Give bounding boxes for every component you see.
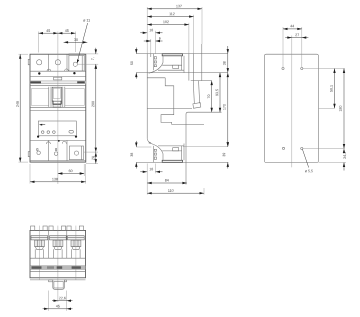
- dim 84 bottom: [147, 179, 187, 184]
- front small step line: [150, 54, 152, 57]
- line under strip: [30, 270, 86, 272]
- extension line left hole: [38, 32, 40, 53]
- handle escutcheon area: [30, 87, 86, 108]
- bottom pole divider lines: [48, 140, 67, 160]
- dim 38 right top: [223, 46, 229, 73]
- dim 60 bottom: [58, 164, 84, 176]
- front face line: [146, 54, 148, 139]
- centre line: [57, 32, 59, 185]
- dim 50.1: [330, 69, 336, 109]
- rear stud: [193, 81, 201, 109]
- ext lines to top dims: [147, 7, 202, 54]
- hole top left: [282, 67, 284, 69]
- lug bottom ext line: [136, 72, 228, 74]
- pole 1 terminal: [31, 226, 48, 249]
- mid horizontal line: [147, 108, 192, 110]
- dim 50 left top: [130, 48, 137, 79]
- case rear line: [188, 54, 190, 81]
- bottom clamp front column: [154, 146, 157, 163]
- small arc bumps on top zone: [47, 69, 68, 71]
- DIN clip: [49, 280, 67, 289]
- label strip: [30, 266, 86, 270]
- toggle handle: [52, 87, 62, 107]
- clamp front column: [154, 54, 157, 71]
- rearmost line: [201, 44, 203, 81]
- line under dots: [30, 76, 86, 78]
- centre line: [291, 36, 293, 168]
- front view body outline: [30, 54, 86, 162]
- rear panel line: [193, 54, 195, 81]
- ext lines bottom dims: [49, 291, 67, 311]
- dim 34.1: [343, 149, 346, 171]
- small centre rectangle (test button): [54, 77, 62, 80]
- bottom holes: [37, 151, 40, 154]
- terminal hole middle: [55, 60, 60, 65]
- bottom lug clamp: [149, 143, 184, 162]
- left side bracket top: [28, 59, 30, 64]
- pole lower guide lines: [35, 249, 80, 258]
- bottom terminal zone top line: [30, 139, 86, 141]
- escutcheon section profile: [161, 78, 204, 125]
- dim 38 left bottom: [130, 141, 151, 169]
- bottom ext lines: [147, 164, 155, 195]
- extension line right hole: [75, 32, 77, 53]
- front view top terminal zone line: [30, 70, 86, 72]
- body outline: [30, 230, 86, 280]
- dim 112: [147, 13, 193, 18]
- dim 45 left: [39, 29, 58, 34]
- accessory circles: [41, 131, 44, 134]
- bottom face ext line: [136, 161, 228, 163]
- dim 18 top: [140, 29, 162, 34]
- ext lines bottom right box: [84, 152, 98, 164]
- front view pole divider lines top zone: [48, 54, 67, 71]
- dim 102: [147, 21, 189, 26]
- leader o11: [77, 19, 90, 63]
- phase barrier dots: [38, 72, 40, 74]
- ext lines top right box: [78, 54, 98, 64]
- dim 200 vertical right: [92, 64, 97, 152]
- dim 138 bottom: [30, 164, 86, 184]
- ext lines holes up: [283, 27, 302, 67]
- accessory cover rectangle: [38, 121, 76, 136]
- hole line right bottom: [303, 148, 345, 150]
- small arrow symbol: [39, 124, 45, 126]
- cutout outline: [264, 54, 318, 162]
- dim 45 right: [58, 29, 76, 34]
- small dot on line: [58, 140, 60, 142]
- hole bottom left: [282, 147, 284, 149]
- right ext line y146.7: [183, 146, 228, 148]
- cover section line: [147, 77, 165, 79]
- pole divider lines: [49, 230, 67, 258]
- hole bottom right: [301, 147, 303, 149]
- dim 45 bottom: [43, 305, 73, 310]
- top lug clamp: [149, 54, 184, 73]
- dim 39 right bottom: [223, 141, 229, 169]
- dim 70 right: [207, 81, 212, 113]
- hole line right top: [303, 68, 345, 70]
- body horizontal line: [30, 257, 86, 259]
- dim 22.6: [52, 297, 73, 302]
- dim 44: [283, 25, 302, 30]
- top right mounting box with hole: [69, 54, 84, 71]
- dim 110 bottom: [147, 189, 204, 194]
- dim 27: [285, 34, 308, 39]
- rating label strip: [30, 81, 86, 84]
- pole centre lines: [39, 226, 76, 302]
- accessory oval: [69, 130, 74, 133]
- stud shelf line: [191, 80, 212, 82]
- small tick marks: [37, 149, 38, 151]
- left side bracket bottom: [28, 152, 30, 157]
- dim 137: [147, 5, 202, 10]
- pole 2 terminal: [49, 226, 66, 249]
- line under label strip: [30, 84, 86, 86]
- terminal hole left: [37, 60, 42, 65]
- bottom arc bumps: [46, 141, 66, 144]
- dim 7: [91, 48, 97, 69]
- pole 3 terminal: [67, 226, 84, 249]
- ext bottom edge right: [319, 162, 347, 164]
- leader o5.5: [303, 150, 313, 173]
- mid tick line: [319, 107, 335, 109]
- dim 6 top: [144, 37, 163, 42]
- bottom right mounting box: [69, 146, 83, 160]
- ext line 110 right: [203, 188, 205, 195]
- dim 30: [64, 38, 88, 43]
- line below escutcheon: [30, 109, 86, 111]
- dim 248 left: [16, 54, 28, 162]
- dim 18 bottom: [140, 168, 162, 173]
- dim 93.5: [216, 73, 222, 113]
- stud base line: [186, 112, 222, 184]
- accessory corner dots: [37, 136, 39, 138]
- dim 180: [339, 69, 345, 149]
- dim 28: [92, 152, 97, 164]
- dim 170 right: [223, 73, 229, 147]
- hole top right: [301, 67, 303, 69]
- top face ext line: [136, 53, 228, 55]
- front face lower curve to bottom lug: [147, 139, 151, 143]
